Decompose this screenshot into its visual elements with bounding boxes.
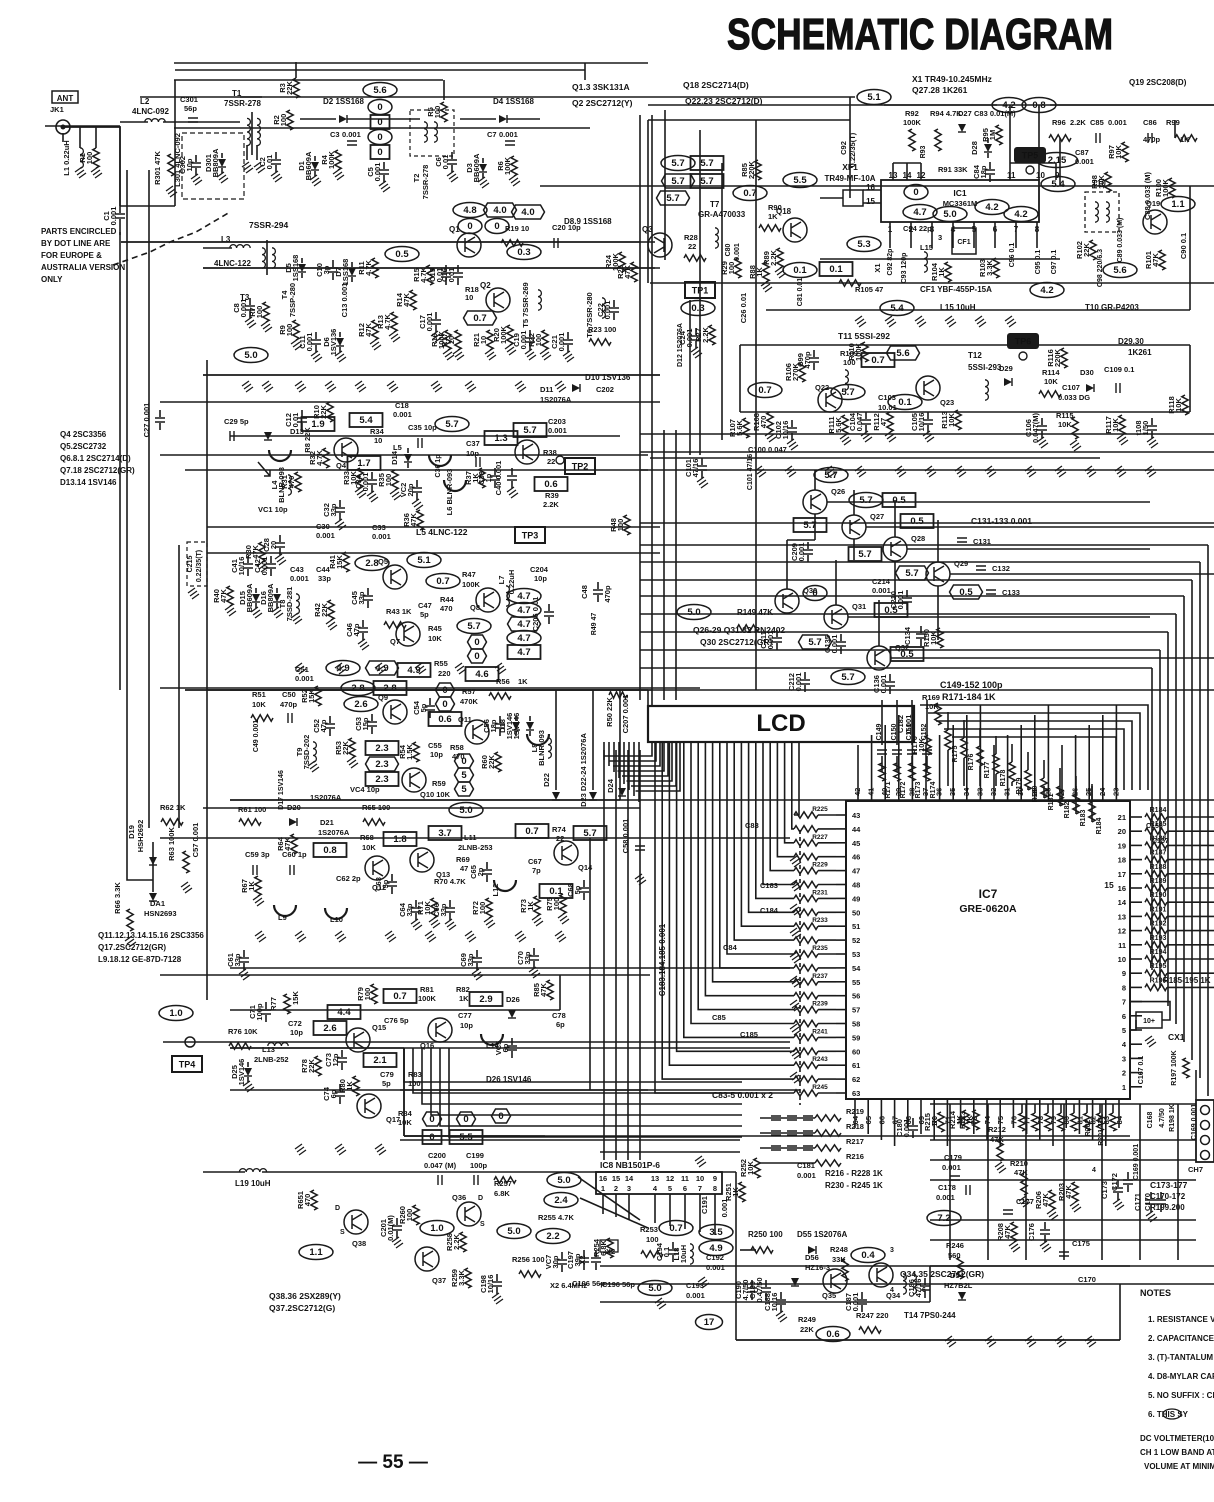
node callout 0	[436, 683, 455, 697]
svg-text:D27: D27	[958, 109, 972, 118]
capacitor C38	[490, 476, 500, 480]
box European option dashed	[182, 133, 244, 199]
svg-text:R63 100K: R63 100K	[167, 827, 176, 861]
note 6 oval symbol	[1163, 1409, 1181, 1419]
capacitor C16	[453, 273, 463, 277]
wire	[221, 153, 223, 158]
wire	[391, 887, 393, 894]
svg-text:10uH: 10uH	[679, 1245, 688, 1263]
svg-text:100K: 100K	[1161, 178, 1170, 197]
capacitor pulse	[787, 1116, 797, 1120]
svg-text:47/16: 47/16	[691, 459, 700, 478]
capacitor C105	[923, 420, 933, 424]
transistor Q12	[365, 856, 389, 880]
capacitor C86	[1148, 133, 1152, 143]
wire	[863, 189, 881, 191]
wire	[1130, 1020, 1136, 1030]
capacitor C85	[1096, 133, 1100, 143]
diode D4	[499, 115, 507, 123]
wire IC7 pin 72	[960, 1099, 962, 1112]
svg-text:R50 22K: R50 22K	[605, 697, 614, 727]
node callout 0	[457, 1112, 476, 1126]
svg-text:R59: R59	[432, 779, 446, 788]
svg-text:11: 11	[1007, 171, 1016, 180]
capacitor C134	[916, 634, 926, 638]
wire rail	[650, 282, 1214, 284]
wire	[1167, 944, 1214, 946]
svg-text:R47: R47	[462, 570, 476, 579]
wire	[1075, 776, 1077, 794]
resistor R73	[534, 896, 540, 916]
resistor R241	[794, 1034, 818, 1040]
svg-text:52: 52	[852, 936, 860, 945]
wire	[567, 332, 569, 339]
capacitor C210	[902, 598, 912, 602]
wire	[163, 121, 240, 123]
wire	[435, 325, 437, 332]
resistor R228	[794, 854, 818, 860]
wire LCD segment line	[777, 742, 794, 857]
wire IC7 pin 80	[1065, 1099, 1067, 1112]
wire IC7 pin 27	[1061, 786, 1063, 801]
capacitor C102	[787, 428, 797, 432]
svg-text:ONLY: ONLY	[41, 275, 63, 284]
ground	[335, 351, 346, 362]
capacitor C61	[239, 958, 249, 962]
resistor R1	[93, 148, 99, 168]
node callout 5.1	[857, 90, 891, 105]
wire	[818, 884, 836, 886]
resistor R178	[993, 754, 999, 774]
capacitor C17	[431, 320, 441, 324]
wire top rail	[174, 79, 443, 81]
ground	[698, 1277, 709, 1288]
ground	[790, 880, 801, 891]
inductor L8	[548, 738, 551, 758]
resistor R185	[1145, 828, 1167, 834]
wire LCD segment line	[794, 742, 799, 815]
node callout 0.7	[516, 824, 549, 838]
ground	[75, 167, 86, 178]
diode D27	[958, 124, 966, 132]
transistor Q8	[476, 588, 500, 612]
wire	[861, 1292, 863, 1299]
wire	[120, 121, 148, 123]
ground	[505, 344, 516, 355]
diode D15	[252, 594, 260, 602]
svg-text:R61 100: R61 100	[238, 805, 266, 814]
ground	[217, 172, 228, 183]
wire	[279, 548, 281, 555]
svg-text:R202: R202	[1085, 1120, 1092, 1137]
ground	[655, 1298, 666, 1309]
resistor R210	[1021, 1173, 1027, 1195]
resistor R208	[1011, 1222, 1017, 1242]
ground	[225, 605, 236, 616]
resistor R79	[371, 984, 377, 1004]
node callout 5.4	[350, 413, 383, 427]
wire	[152, 842, 154, 892]
resistor R60	[495, 752, 501, 772]
ground	[251, 607, 262, 618]
capacitor C68	[579, 888, 589, 892]
node callout 4.9	[398, 663, 431, 677]
wire IC7 pin 71	[946, 1099, 948, 1112]
resistor R233	[794, 923, 818, 929]
svg-text:C13 0.001: C13 0.001	[340, 283, 349, 318]
svg-text:D17 1SV146: D17 1SV146	[278, 770, 285, 810]
svg-text:0.6: 0.6	[438, 714, 451, 725]
wire	[367, 601, 369, 608]
svg-text:R82: R82	[456, 985, 470, 994]
node callout 5.7	[814, 468, 848, 483]
svg-text:57: 57	[852, 1006, 860, 1015]
node callout 0	[423, 1130, 442, 1144]
wire	[416, 480, 418, 487]
resistor R56	[489, 693, 511, 699]
svg-text:0.001: 0.001	[342, 130, 361, 139]
svg-text:10: 10	[465, 293, 473, 302]
wire	[613, 300, 615, 307]
transistor Q6	[515, 440, 539, 464]
wire	[776, 630, 778, 637]
wire IC7 pin 65	[867, 1099, 869, 1112]
svg-text:4: 4	[1092, 1167, 1096, 1174]
capacitor C150	[892, 750, 902, 754]
ground	[335, 519, 346, 530]
svg-text:C97 0.1: C97 0.1	[1051, 250, 1058, 275]
capacitor C173	[1113, 1188, 1123, 1192]
coil core	[444, 480, 466, 491]
svg-text:10K: 10K	[398, 1118, 412, 1127]
svg-text:C169 0.001: C169 0.001	[1133, 1144, 1140, 1180]
ground	[367, 491, 378, 502]
svg-text:0.1: 0.1	[793, 265, 807, 276]
node callout 5	[455, 768, 474, 782]
capacitor C19	[525, 338, 535, 342]
svg-text:R169: R169	[922, 693, 940, 702]
resistor R48	[624, 515, 630, 535]
diode D301	[218, 159, 226, 167]
transistor Q13	[410, 848, 434, 872]
node callout 0	[368, 130, 392, 145]
svg-text:BB809A: BB809A	[211, 148, 220, 177]
svg-text:47: 47	[460, 864, 468, 873]
wire	[623, 742, 625, 784]
svg-text:2.2K: 2.2K	[769, 249, 778, 265]
wire	[979, 766, 981, 786]
svg-text:C85: C85	[712, 1013, 726, 1022]
wire	[371, 472, 373, 479]
svg-text:R96: R96	[1052, 118, 1066, 127]
svg-text:C134: C134	[903, 626, 912, 645]
wire	[804, 672, 806, 679]
svg-text:5.7: 5.7	[808, 637, 821, 648]
resistor R117	[1119, 415, 1125, 435]
svg-text:100p: 100p	[255, 1003, 264, 1021]
ground	[765, 431, 776, 442]
node callout 0	[803, 586, 827, 601]
svg-text:X1 TR49-10.245MHz: X1 TR49-10.245MHz	[912, 74, 992, 84]
svg-text:4.7K: 4.7K	[315, 449, 324, 465]
wire	[300, 118, 336, 120]
svg-text:22K: 22K	[307, 1059, 316, 1073]
node callout 4.2	[992, 98, 1026, 113]
svg-text:0.001: 0.001	[766, 631, 775, 650]
svg-text:R44: R44	[440, 595, 455, 604]
svg-text:5.7: 5.7	[666, 193, 679, 204]
svg-text:C191: C191	[700, 1196, 709, 1214]
diode D19	[149, 857, 157, 865]
diode D22	[552, 792, 560, 800]
svg-text:100: 100	[727, 262, 736, 275]
capacitor C109	[1116, 383, 1120, 393]
transistor Q7	[396, 622, 420, 646]
wire	[279, 535, 281, 542]
capacitor C188	[776, 1300, 786, 1304]
resistor R237	[794, 979, 818, 985]
svg-text:0.001: 0.001	[373, 163, 382, 182]
svg-text:— 55 —: — 55 —	[358, 1452, 428, 1473]
capacitor C178	[966, 1185, 970, 1195]
svg-text:HZ16-3: HZ16-3	[805, 1263, 830, 1272]
svg-text:0: 0	[467, 221, 472, 232]
wire	[119, 127, 121, 206]
resistor R111	[842, 415, 848, 435]
svg-text:5.1: 5.1	[867, 92, 881, 103]
svg-text:10: 10	[1036, 171, 1045, 180]
resistor R231	[794, 895, 818, 901]
node callout 0.3	[681, 301, 715, 316]
svg-text:470p: 470p	[803, 351, 812, 369]
svg-text:BB809A: BB809A	[266, 583, 275, 612]
resistor R219	[815, 1115, 841, 1121]
resistor R258	[460, 1232, 466, 1252]
wire	[496, 1287, 498, 1294]
svg-text:VC4 10p: VC4 10p	[350, 785, 380, 794]
wire	[247, 1077, 249, 1082]
svg-text:5.7: 5.7	[671, 158, 684, 169]
svg-text:C215: C215	[187, 556, 194, 573]
svg-text:31: 31	[1003, 788, 1012, 796]
svg-text:C132: C132	[992, 564, 1010, 573]
svg-text:TP4: TP4	[179, 1060, 196, 1070]
node callout 5.7	[662, 174, 695, 188]
resistor R245	[794, 1090, 818, 1096]
svg-text:0.7: 0.7	[436, 576, 449, 587]
capacitor C48	[593, 590, 603, 594]
resistor R251	[739, 1182, 745, 1202]
svg-text:47K: 47K	[539, 983, 548, 997]
wire	[595, 1250, 597, 1257]
svg-text:7SSR-278: 7SSR-278	[421, 165, 430, 200]
svg-text:48: 48	[852, 881, 860, 890]
svg-text:41: 41	[867, 788, 876, 796]
svg-text:SCHEMATIC DIAGRAM: SCHEMATIC DIAGRAM	[727, 10, 1113, 59]
svg-text:BB609A: BB609A	[245, 583, 254, 612]
node callout 0.1	[783, 263, 817, 278]
wire	[924, 1291, 926, 1298]
svg-text:0.5: 0.5	[910, 516, 924, 527]
resistor R27	[709, 325, 715, 345]
wire	[247, 1062, 249, 1067]
svg-text:R245: R245	[812, 1084, 828, 1091]
transistor Q16	[428, 1018, 452, 1042]
ground	[1040, 1241, 1051, 1252]
wire IC7 pin 40	[884, 786, 886, 801]
svg-text:L6 BLNR-093: L6 BLNR-093	[445, 469, 454, 516]
svg-text:2. CAPACITANCE VA: 2. CAPACITANCE VA	[1148, 1334, 1214, 1343]
capacitor C59	[253, 865, 257, 875]
svg-text:0: 0	[429, 1114, 434, 1125]
node callout 1.0	[420, 1221, 454, 1236]
svg-text:0.4: 0.4	[861, 1250, 875, 1261]
svg-text:22: 22	[688, 242, 696, 251]
wire	[760, 1117, 815, 1119]
resistor R174	[924, 763, 930, 781]
svg-text:4: 4	[890, 1287, 894, 1294]
resistor R4	[335, 150, 341, 170]
svg-text:Q37: Q37	[432, 1276, 446, 1285]
wire	[371, 714, 373, 721]
svg-text:0.5: 0.5	[395, 249, 409, 260]
svg-text:5.6: 5.6	[896, 348, 909, 359]
svg-text:D29: D29	[999, 364, 1013, 373]
diode D16	[273, 594, 281, 602]
svg-text:T14 7PS0-244: T14 7PS0-244	[904, 1311, 956, 1320]
svg-text:100: 100	[646, 1235, 659, 1244]
transistor Q35	[823, 1269, 847, 1293]
wire dashed European option	[799, 830, 801, 1105]
svg-text:C37: C37	[466, 439, 480, 448]
svg-text:1SS168: 1SS168	[341, 259, 350, 286]
svg-text:Q19 2SC208(D): Q19 2SC208(D)	[1129, 78, 1187, 87]
svg-text:R45: R45	[428, 624, 442, 633]
wire LCD segment line	[727, 742, 794, 954]
wire	[203, 247, 232, 249]
wire	[163, 1041, 790, 1043]
svg-text:0.3: 0.3	[691, 303, 704, 314]
svg-text:4LNC-122: 4LNC-122	[214, 259, 251, 268]
svg-text:Q35: Q35	[822, 1291, 836, 1300]
svg-text:470K: 470K	[460, 697, 479, 706]
svg-text:5.0: 5.0	[648, 1283, 661, 1294]
resistor R12	[372, 320, 378, 340]
svg-text:470: 470	[303, 1194, 312, 1207]
svg-text:1SV146: 1SV146	[237, 1059, 246, 1086]
wire	[243, 963, 245, 970]
wire	[1151, 418, 1153, 425]
resistor R24	[619, 252, 625, 272]
svg-text:R233: R233	[812, 917, 828, 924]
connector CH7 pin	[1201, 1151, 1210, 1160]
resistor R227	[794, 840, 818, 846]
node callout 1.7	[348, 456, 381, 470]
svg-text:R183: R183	[1080, 810, 1087, 827]
capacitor C73	[337, 1058, 347, 1062]
wire	[255, 588, 257, 593]
wire	[1167, 901, 1214, 903]
svg-text:C178: C178	[938, 1183, 956, 1192]
ground	[181, 882, 192, 893]
node callout 3.5	[699, 1225, 733, 1240]
capacitor t108	[1147, 426, 1157, 430]
wire	[301, 423, 303, 430]
ground	[1070, 440, 1081, 451]
diode D10	[572, 384, 580, 392]
svg-text:TP5: TP5	[1022, 151, 1039, 161]
svg-text:R248: R248	[830, 1245, 848, 1254]
wire IC1 pin 10	[1038, 163, 1040, 180]
svg-text:C94 22p: C94 22p	[903, 224, 932, 233]
wire	[265, 1002, 267, 1009]
wire	[701, 471, 703, 478]
wire IC7 pin 4	[1130, 1043, 1142, 1045]
node callout 5.0	[933, 207, 967, 222]
wire	[583, 1250, 585, 1257]
wire IC7 pin 36	[939, 786, 941, 801]
svg-text:24: 24	[1098, 787, 1107, 796]
svg-text:54: 54	[852, 964, 861, 973]
resistor R13	[391, 312, 397, 332]
wire IC7 pin 45	[836, 842, 846, 844]
wire	[1150, 1192, 1152, 1199]
svg-text:R51: R51	[252, 690, 266, 699]
capacitor C22	[609, 308, 619, 312]
wire	[912, 1118, 914, 1125]
wire	[979, 728, 981, 746]
resistor R22	[542, 330, 548, 350]
wire	[861, 1305, 863, 1312]
test point TP2 pad	[556, 456, 564, 464]
wire	[339, 500, 341, 507]
svg-text:100K: 100K	[327, 150, 336, 169]
svg-text:Q5.2SC2732: Q5.2SC2732	[60, 442, 107, 451]
node callout 5.7	[691, 156, 724, 170]
resistor R184	[1089, 802, 1095, 822]
svg-text:C183.184.185 0.001: C183.184.185 0.001	[658, 923, 667, 996]
svg-text:NOTES: NOTES	[1140, 1288, 1171, 1298]
resistor R193	[1145, 942, 1167, 948]
wire	[496, 1274, 498, 1281]
svg-text:7SSR-278: 7SSR-278	[224, 99, 261, 108]
capacitor C69	[472, 958, 482, 962]
svg-text:T6 7SSR-280: T6 7SSR-280	[585, 292, 594, 337]
diode D56	[791, 1278, 799, 1286]
ground	[1146, 1211, 1157, 1222]
resistor R11	[372, 258, 378, 278]
capacitor C46	[358, 628, 368, 632]
capacitor C60	[290, 865, 294, 875]
resistor R25	[631, 262, 637, 282]
wire IC1 pin top 0	[892, 163, 894, 180]
wire	[619, 690, 621, 800]
wire LCD segment line	[677, 742, 794, 1051]
node callout 0.6	[429, 712, 462, 726]
capacitor C106	[1037, 426, 1047, 430]
svg-text:0.001: 0.001	[499, 130, 518, 139]
resistor R197	[1183, 1058, 1189, 1078]
node callout 5.0	[234, 348, 268, 363]
wire	[618, 742, 620, 778]
wire IC7 pin 12	[1130, 930, 1142, 932]
wire IC7 pin 61	[836, 1064, 846, 1066]
node callout 0.6	[535, 477, 568, 491]
resistor R226	[794, 826, 818, 832]
svg-text:100: 100	[279, 114, 288, 127]
ground	[311, 351, 322, 362]
svg-text:2.3: 2.3	[375, 759, 388, 770]
